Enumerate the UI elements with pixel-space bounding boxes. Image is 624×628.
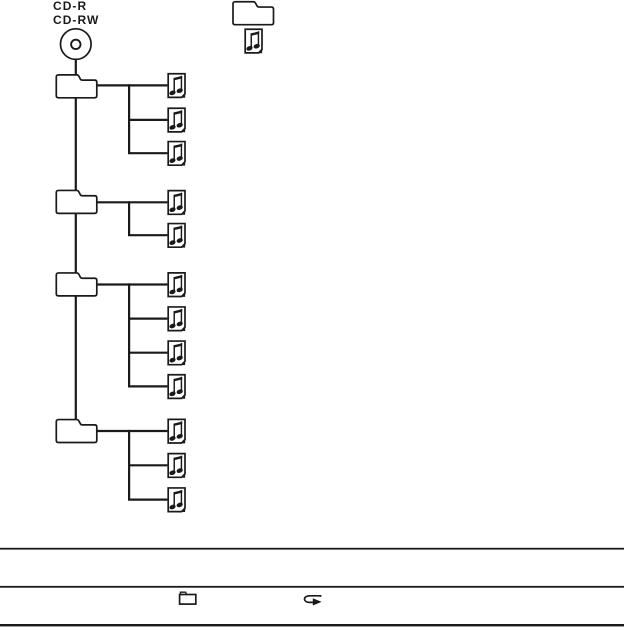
svg-text:CD-R: CD-R <box>53 0 87 13</box>
svg-text:CD-RW: CD-RW <box>53 13 99 27</box>
